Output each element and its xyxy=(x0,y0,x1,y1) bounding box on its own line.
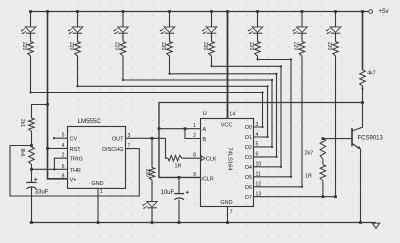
wire: R9 bottom to node (R10 top / discharge return) xyxy=(30,132,33,147)
resistor R2 220 xyxy=(68,42,80,58)
capacitor C2 10uF (polarized, on /CLR) xyxy=(161,176,189,200)
wire: R14 to R15 xyxy=(322,161,324,165)
svg-text:O5: O5 xyxy=(245,175,252,181)
wire: THR node down to capacitor C1 xyxy=(31,169,33,182)
wire: A/B node tap on feedback line xyxy=(159,128,185,130)
svg-text:1R: 1R xyxy=(305,174,312,180)
svg-text:10: 10 xyxy=(256,162,262,168)
U2 output O5 label (pin 11) xyxy=(245,172,261,181)
wire: +5V rail to LED D6 anode xyxy=(256,10,259,27)
svg-text:O6: O6 xyxy=(245,185,252,191)
LED D5 xyxy=(202,27,217,34)
resistor R6 220 xyxy=(248,42,260,58)
wire: D9 cathode to ground rail xyxy=(151,208,154,224)
U1 pin 5 CV stub (n.c.) xyxy=(53,133,78,143)
wire: R8 to 74LS164 output O7 (pin 13) xyxy=(254,57,337,198)
svg-text:1: 1 xyxy=(193,123,196,129)
svg-text:220: 220 xyxy=(202,42,208,51)
+5V power rail (top) xyxy=(31,11,369,13)
wire: R7 to 74LS164 output O6 (pin 12) xyxy=(254,57,304,188)
svg-text:8: 8 xyxy=(193,153,196,159)
svg-text:VCC: VCC xyxy=(221,122,233,128)
svg-text:220: 220 xyxy=(160,42,166,51)
svg-text:220: 220 xyxy=(114,42,120,51)
resistor R11 150 xyxy=(144,168,155,182)
resistor R7 220 xyxy=(293,42,305,58)
svg-text:12: 12 xyxy=(256,182,262,188)
shift register U2 74LS164 body xyxy=(201,111,254,206)
resistor R14 2k7 xyxy=(305,139,326,161)
wire: LED D4 cathode to resistor R4 xyxy=(169,33,171,41)
svg-text:220: 220 xyxy=(68,42,74,51)
wire: R2 to 74LS164 output O1 (pin 4) xyxy=(77,57,269,138)
resistor R5 220 xyxy=(202,42,214,58)
svg-text:3: 3 xyxy=(128,133,131,139)
wire: LED D1 cathode to resistor R1 xyxy=(30,33,32,41)
wire: +5V rail to LED D2 anode xyxy=(76,10,79,27)
wire: R10 bottom to THR node xyxy=(30,166,33,171)
wire: +5V rail down to U2 VCC (pin 14) xyxy=(221,10,236,128)
svg-text:LM555C: LM555C xyxy=(78,118,102,125)
svg-text:8: 8 xyxy=(62,173,65,179)
wire: +5V rail to LED D5 anode xyxy=(210,10,213,27)
svg-text:DISCHG: DISCHG xyxy=(102,147,123,153)
svg-text:5: 5 xyxy=(62,133,65,139)
wire: R6 to 74LS164 output O5 (pin 8) xyxy=(254,57,293,178)
svg-text:10uF: 10uF xyxy=(161,190,175,196)
resistor R8 220 xyxy=(326,42,338,58)
wire: C2 to ground rail xyxy=(178,200,181,224)
U1 pin 6 THR label xyxy=(62,164,81,174)
svg-text:7: 7 xyxy=(230,210,233,216)
LED D7 xyxy=(292,27,307,34)
svg-text:74LS164: 74LS164 xyxy=(227,147,233,171)
svg-text:2: 2 xyxy=(193,133,196,139)
resistor R13 4k7 xyxy=(360,70,376,89)
svg-text:/CLR: /CLR xyxy=(202,176,214,182)
wire: +5V rail to LED D1 anode xyxy=(29,10,32,27)
wire: R12 to U2 CLK (pin 8) xyxy=(183,157,200,159)
wire: LED D8 cathode to resistor R8 xyxy=(335,33,337,41)
wire: Q1 base line xyxy=(322,137,353,140)
U1 pin 2 TRIG label xyxy=(62,153,83,163)
svg-text:O7: O7 xyxy=(245,195,252,201)
LED D9 (555 output indicator) xyxy=(142,202,157,209)
svg-text:O4: O4 xyxy=(245,165,252,171)
svg-text:O3: O3 xyxy=(245,155,252,161)
U2 output O0 label (pin 3) xyxy=(245,122,259,131)
svg-text:+5v: +5v xyxy=(379,8,390,15)
resistor R9 2k1 xyxy=(19,118,35,132)
wire: +5V rail to LED D3 anode xyxy=(122,10,125,27)
LED D4 xyxy=(160,27,175,34)
svg-text:B: B xyxy=(203,137,207,143)
svg-text:2k1: 2k1 xyxy=(19,119,25,127)
svg-text:1R: 1R xyxy=(175,163,182,169)
wire: C1 to ground rail xyxy=(30,188,33,224)
wire: Q1 emitter to ground rail xyxy=(359,149,362,224)
wire: TRIG (pin 2) tied to THR xyxy=(53,158,67,170)
U2 pin 2 B input (tied to A) xyxy=(184,127,207,143)
U2 output O6 label (pin 12) xyxy=(245,182,262,191)
ground symbol xyxy=(372,223,380,228)
U1 pin 7 DISCHG label xyxy=(102,143,130,153)
svg-text:8k6: 8k6 xyxy=(19,149,25,157)
svg-text:33uF: 33uF xyxy=(35,189,49,195)
wire: R13 bottom / feedback node to Q1 collector xyxy=(352,88,364,132)
U2 output O4 label (pin 10) xyxy=(245,162,262,171)
wire: +5V rail to LED D4 anode xyxy=(168,10,171,27)
svg-text:V+: V+ xyxy=(70,177,77,183)
ground rail (bottom) xyxy=(30,222,377,224)
U1 GND pin 1 xyxy=(91,181,103,224)
wire: R1 to 74LS164 output O0 (pin 3) xyxy=(30,57,264,128)
svg-text:5: 5 xyxy=(256,142,259,148)
resistor R12 1R (clock) xyxy=(168,155,183,169)
wire: +5V rail down to 555 V+ (pin 8) and RST xyxy=(46,10,68,179)
wire: LED D7 cathode to resistor R7 xyxy=(301,33,303,41)
wire: OUT corner down to resistor R12 xyxy=(166,138,169,158)
wire: LED D5 cathode to resistor R5 xyxy=(211,33,213,41)
wire: THR node to 555 THR (pin 6) xyxy=(32,168,68,170)
svg-text:6: 6 xyxy=(256,152,259,158)
transistor Q1 FCS9013 (NPN) xyxy=(352,128,384,149)
svg-text:O1: O1 xyxy=(245,135,252,141)
wire: +5V rail to LED D7 anode xyxy=(301,10,304,27)
svg-text:OUT: OUT xyxy=(112,137,124,143)
svg-text:GND: GND xyxy=(91,181,103,187)
+5v terminal xyxy=(369,8,390,15)
svg-text:150: 150 xyxy=(144,169,150,178)
svg-text:CV: CV xyxy=(70,137,78,143)
svg-text:14: 14 xyxy=(229,112,235,118)
LED D3 xyxy=(113,27,128,34)
wire: LED D2 cathode to resistor R2 xyxy=(77,33,79,41)
resistor R15 1R xyxy=(305,165,326,183)
svg-text:220: 220 xyxy=(21,42,27,51)
resistor R1 220 xyxy=(21,42,33,58)
U2 output O1 label (pin 4) xyxy=(245,132,259,141)
wire: LED D6 cathode to resistor R6 xyxy=(257,33,259,41)
wire: OUT junction down to resistor R11 xyxy=(151,137,154,168)
wire: +5V rail down to resistor R13 xyxy=(361,10,364,70)
LED D2 xyxy=(68,27,83,34)
U1 pin 3 OUT xyxy=(112,133,166,143)
svg-text:13: 13 xyxy=(256,192,262,198)
wire: R5 to 74LS164 output O4 (pin 7) xyxy=(211,57,282,168)
svg-text:RST: RST xyxy=(70,147,82,153)
svg-text:4: 4 xyxy=(62,143,65,149)
wire: R4 to 74LS164 output O3 (pin 6) xyxy=(169,57,278,158)
svg-text:220: 220 xyxy=(326,42,332,51)
LED D1 xyxy=(21,27,36,34)
svg-text:THR: THR xyxy=(70,168,81,174)
svg-text:6: 6 xyxy=(62,164,65,170)
svg-text:7: 7 xyxy=(128,143,131,149)
svg-text:CLK: CLK xyxy=(206,157,217,163)
svg-text:4: 4 xyxy=(256,132,259,138)
wire: R11 to LED D9 xyxy=(151,181,153,202)
LED D6 xyxy=(248,27,263,34)
svg-text:2k7: 2k7 xyxy=(305,151,314,157)
wire: R3 to 74LS164 output O2 (pin 5) xyxy=(122,57,273,148)
U2 output O3 label (pin 6) xyxy=(245,152,259,161)
wire: R15 bottom to O7 line xyxy=(322,182,325,198)
svg-text:GND: GND xyxy=(220,200,232,206)
wire: feedback from Q1 collector node to A/B and /CLR xyxy=(158,103,363,178)
capacitor C1 33uF (polarized) xyxy=(27,178,49,196)
resistor R10 8k6 xyxy=(19,147,35,166)
svg-text:4k7: 4k7 xyxy=(367,70,375,76)
wire: LED D3 cathode to resistor R3 xyxy=(122,33,124,41)
LED D8 xyxy=(326,27,341,34)
svg-text:220: 220 xyxy=(248,42,254,51)
svg-text:220: 220 xyxy=(293,42,299,51)
svg-text:11: 11 xyxy=(256,172,261,178)
U2 output O7 label (pin 13) xyxy=(245,192,262,201)
wire: V+ line to resistor R9 top xyxy=(32,103,49,118)
svg-text:1: 1 xyxy=(100,189,103,195)
U2 pin 8 CLK label xyxy=(193,153,217,163)
svg-text:FCS9013: FCS9013 xyxy=(358,136,384,142)
U2 GND pin 7 xyxy=(220,200,232,224)
svg-text:O0: O0 xyxy=(245,125,252,131)
U2 output O2 label (pin 5) xyxy=(245,142,259,151)
U1 pin 8 V+ label xyxy=(62,173,77,183)
U2 pin 1 A input xyxy=(185,123,207,133)
svg-text:2: 2 xyxy=(62,153,65,159)
op IC U1 LM555C body xyxy=(68,118,126,188)
wire: +5V rail to LED D8 anode xyxy=(334,10,337,27)
svg-text:3: 3 xyxy=(256,122,259,128)
svg-text:TRIG: TRIG xyxy=(70,157,83,163)
U1 pin 4 RST xyxy=(46,143,81,153)
resistor R3 220 xyxy=(114,42,126,58)
wire: discharge return (node to DISCHG pin 7 via left/bottom detour) xyxy=(10,146,139,197)
U2 pin 9 /CLR xyxy=(193,172,214,182)
svg-text:U: U xyxy=(203,111,207,117)
svg-text:O2: O2 xyxy=(245,145,252,151)
svg-text:A: A xyxy=(203,127,207,133)
resistor R4 220 xyxy=(160,42,172,58)
